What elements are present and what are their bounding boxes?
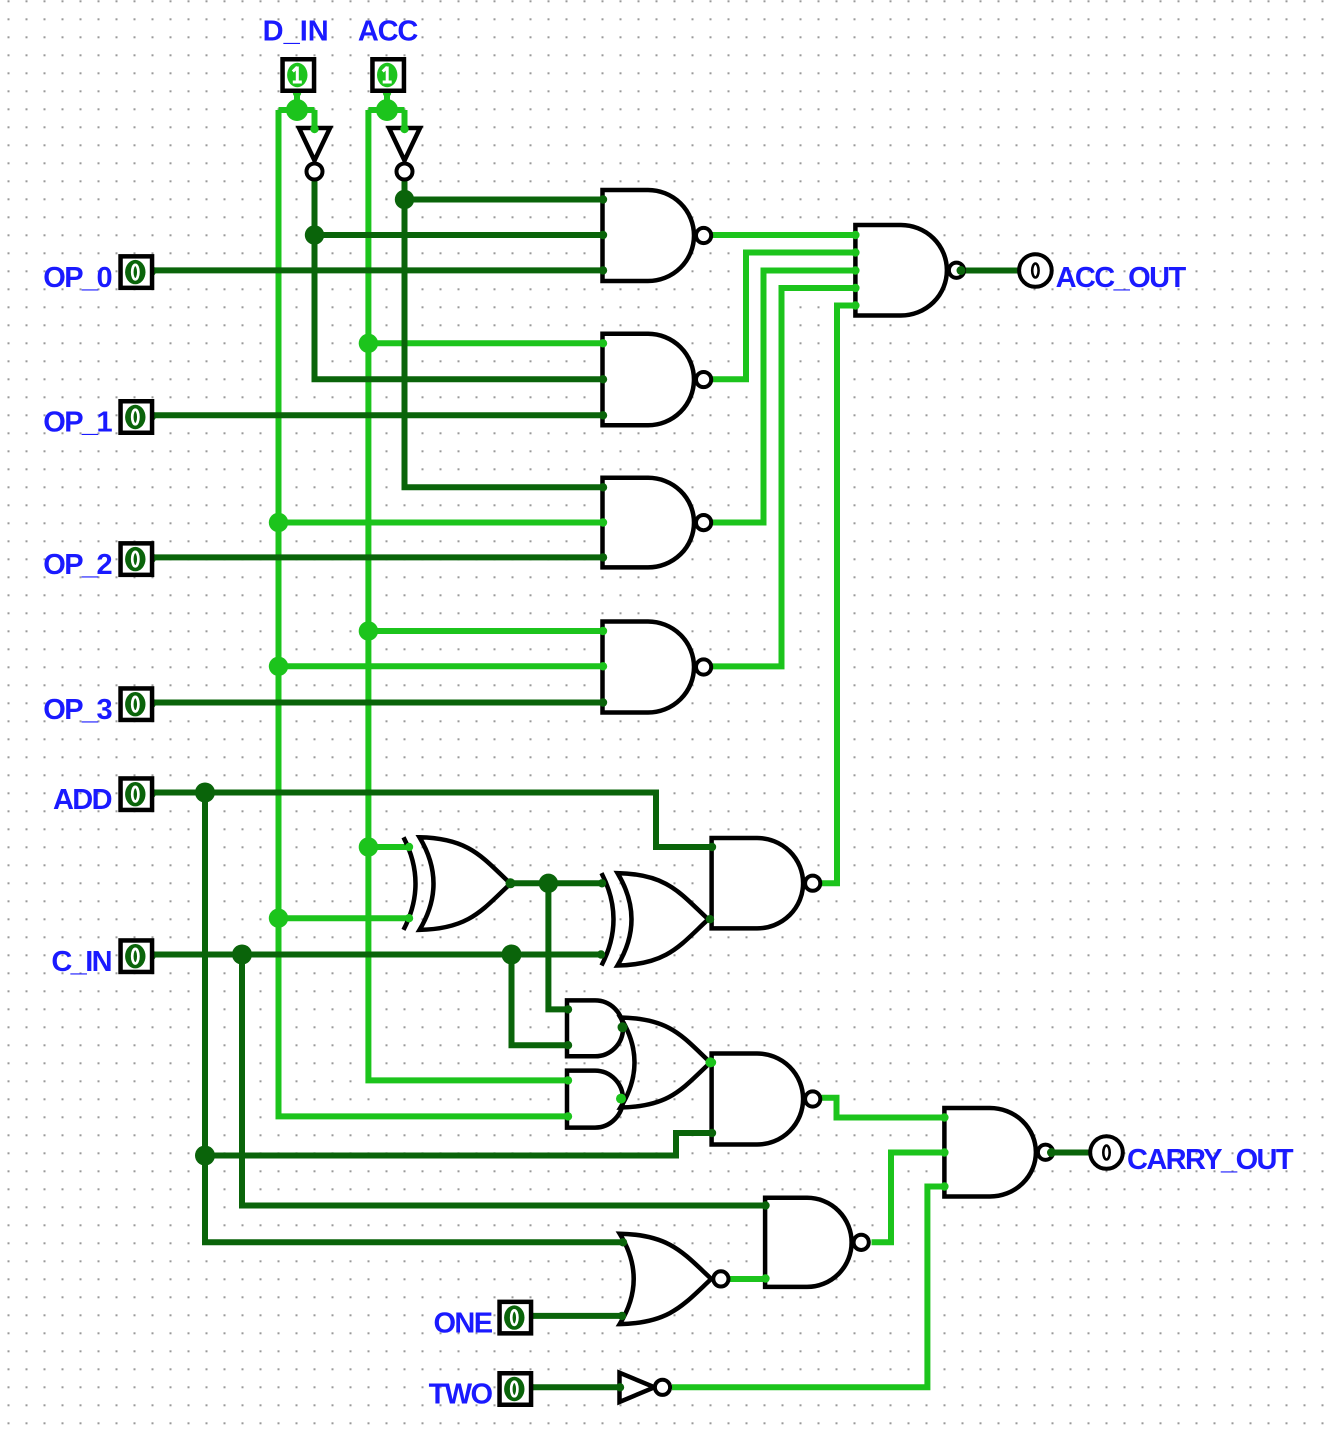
svg-text:ONE: ONE [433,1307,492,1339]
svg-text:ADD: ADD [53,784,112,816]
svg-text:OP_0: OP_0 [43,262,111,294]
svg-text:CARRY_OUT: CARRY_OUT [1127,1144,1294,1176]
svg-text:D_IN: D_IN [263,16,329,48]
svg-text:OP_1: OP_1 [43,407,112,439]
svg-text:TWO: TWO [429,1379,493,1411]
svg-text:ACC_OUT: ACC_OUT [1056,262,1187,294]
svg-text:ACC: ACC [358,16,418,48]
svg-text:OP_3: OP_3 [43,694,112,726]
svg-text:OP_2: OP_2 [43,549,111,581]
svg-text:C_IN: C_IN [51,946,111,978]
